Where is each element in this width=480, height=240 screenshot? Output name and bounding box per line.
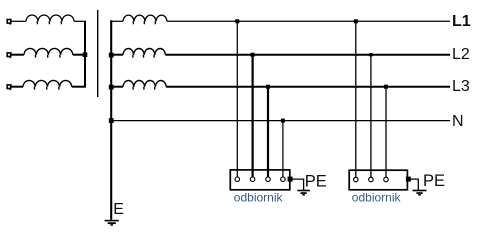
wire line L3 <box>166 86 450 88</box>
wire secondary neutral bus vertical <box>110 20 112 220</box>
wire PE box2 <box>411 179 419 190</box>
wire line N <box>111 120 450 122</box>
terminal circle box1 c3 <box>266 177 271 182</box>
wire line L2 <box>165 54 450 56</box>
wire primary row3 to star point <box>72 86 86 88</box>
wire secondary row3 lead <box>110 86 123 88</box>
wire primary star-point bus <box>84 21 86 86</box>
wire drop L3 to box1 <box>267 87 269 177</box>
svg-text:N: N <box>452 113 464 130</box>
load box 1 <box>230 170 289 190</box>
svg-text:E: E <box>113 201 124 218</box>
junction PE dot box2 <box>406 177 411 182</box>
junction tap L1 box1 <box>235 19 239 23</box>
terminal circle box1 c2 <box>250 177 255 182</box>
terminal circle box2 c3 <box>384 177 389 182</box>
terminal square primary row3 <box>7 85 11 89</box>
wire primary row2 to star point <box>73 54 86 56</box>
svg-text:PE: PE <box>305 172 327 190</box>
wire drop L1 to box1 <box>236 21 238 177</box>
wire drop L1 to box2 <box>355 21 357 177</box>
svg-text:L3: L3 <box>452 78 470 95</box>
junction star point row2 <box>83 52 88 57</box>
wire drop L2 to box2 <box>370 55 372 177</box>
junction tap L3 box1 <box>266 85 270 89</box>
wire PE box1 <box>293 179 304 190</box>
terminal square primary row2 <box>7 53 11 57</box>
inductor secondary winding L2 <box>123 48 165 57</box>
junction bus row3 <box>109 85 114 90</box>
ground PE box1 <box>297 190 310 192</box>
ground E at transformer neutral <box>105 220 119 222</box>
svg-text:L2: L2 <box>452 46 470 63</box>
inductor primary winding row2 <box>24 48 73 57</box>
wire primary row1 to star point <box>74 20 86 22</box>
wire drop L3 to box2 <box>385 87 387 177</box>
terminal circle box1 c4 <box>281 177 286 182</box>
terminal circle box1 c1 <box>235 177 240 182</box>
svg-text:odbiornik: odbiornik <box>234 190 284 204</box>
terminal circle box2 c2 <box>369 177 374 182</box>
wire drop L2 to box1 <box>252 55 254 177</box>
inductor primary winding row3 <box>23 80 72 89</box>
inductor secondary winding L3 <box>123 80 166 89</box>
load box 2 <box>349 170 407 190</box>
terminal circle box2 c1 <box>354 177 359 182</box>
junction bus row2 <box>109 53 114 58</box>
wire secondary row2 lead <box>110 54 123 56</box>
junction tap L2 box2 <box>369 53 372 56</box>
terminal square primary row1 <box>7 20 11 24</box>
svg-text:PE: PE <box>423 172 445 190</box>
junction bus N <box>109 118 114 123</box>
junction PE dot box1 <box>288 177 293 182</box>
wire primary row3 lead <box>11 86 23 88</box>
inductor secondary winding L1 <box>123 15 167 24</box>
junction tap L2 box1 <box>251 53 255 57</box>
wire drop N to box1 <box>282 121 284 177</box>
wire primary row2 lead <box>11 54 24 56</box>
wire secondary row1 lead <box>110 20 123 22</box>
inductor primary winding row1 <box>26 15 74 24</box>
junction tap L3 box2 <box>384 85 388 89</box>
wire line L1 <box>167 20 450 22</box>
ground PE box2 <box>413 190 427 192</box>
junction tap L1 box2 <box>354 19 358 23</box>
wire primary row1 lead <box>11 20 26 22</box>
transformer core line <box>97 10 99 97</box>
svg-text:odbiornik: odbiornik <box>352 190 402 204</box>
svg-text:L1: L1 <box>452 13 471 30</box>
junction tap N box1 <box>281 119 285 123</box>
